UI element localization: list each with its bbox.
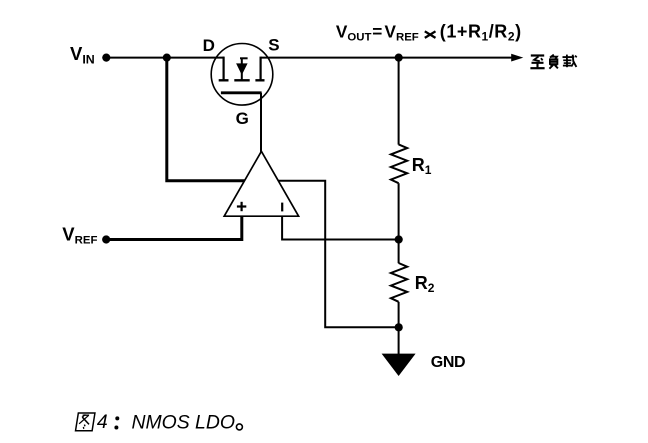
wire: feedback node down to R2 [398,240,400,264]
transistor Q1 body arm top tick [240,57,248,59]
transistor Q1 channel dash center [234,79,249,81]
wire: R1 to feedback node [398,183,400,239]
transistor Q1 body arm [241,58,243,80]
node dot: output [395,54,403,62]
plus input marker [237,202,246,211]
label: to load (fu) [549,55,558,69]
node dot: VIN junction [163,54,171,62]
svg-text:S: S [268,36,279,55]
transistor Q1 drain bar [223,57,225,81]
ground [382,354,416,376]
wire: ground node to ground symbol [398,327,400,354]
wire: output node down to R1 [398,58,400,145]
caption ideographic period [236,424,242,430]
wire: VREF to op-amp plus input [106,215,242,240]
transistor Q1 channel dash left [219,79,229,81]
svg-text:GND: GND [431,354,465,371]
wire: source to output node [261,57,399,59]
svg-text:NMOS LDO: NMOS LDO [132,411,235,433]
node dot: ground junction [395,323,403,331]
node dot: feedback node [395,235,403,243]
transistor Q1 gate bar [221,91,262,94]
resistor R1 [391,144,407,183]
label: to load (zhi) [530,56,544,69]
transistor Q1 source bar [260,57,262,81]
transistor Q1 body circle [211,44,273,106]
arrowhead to load [511,54,523,62]
transistor Q1 body arrow [236,63,248,75]
wire: VIN terminal to drain [106,57,224,59]
wire: R2 to ground node [398,302,400,328]
wire: minus input stub to feedback node [282,215,399,240]
formula multiplication sign [425,31,436,38]
wire: gate to op-amp output apex [260,93,262,152]
wire: junction down and right to op-amp V+ supply [167,58,246,181]
transistor Q1 channel dash right [255,79,264,81]
label: to load (zai) [563,55,577,68]
terminal dot VREF [102,235,110,243]
svg-text:G: G [236,109,249,128]
resistor R2 [391,263,407,302]
wire: output node to load arrow [399,57,513,59]
svg-text:4: 4 [97,411,108,433]
op-amp U1 [224,151,298,216]
caption figure glyph (tu) [76,413,95,431]
wire: op-amp V- supply to ground node [277,181,399,327]
svg-text:D: D [203,36,215,55]
caption fullwidth colon [114,416,119,429]
minus input marker [281,203,283,212]
terminal dot VIN [102,54,110,62]
